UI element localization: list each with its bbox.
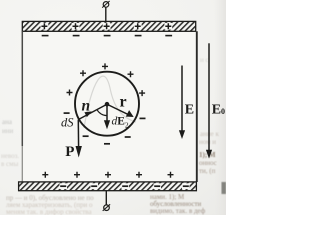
faint bleed curve inside circle (decorative) [84,76,136,128]
E0 vector [208,43,210,151]
svg-text:меням так. в дифор свойства: меням так. в дифор свойства [6,208,92,215]
dielectric right boundary [196,31,198,182]
bound charges - (below top plate) [42,35,172,37]
svg-text:ном и: ном и [199,138,216,146]
n arrowhead [84,111,91,117]
svg-text:r: r [120,93,127,110]
E vector [181,66,183,132]
center dot [105,102,110,107]
faint bleed-through text (decorative) [1,56,219,216]
top capacitor plate [22,21,195,31]
svg-text:E: E [185,102,194,117]
svg-text:ти, (п: ти, (п [199,167,216,175]
P vector [77,120,79,148]
radius line from dS to center [78,104,107,119]
angle arc [97,110,107,116]
bottom terminal [103,204,110,211]
svg-text:в смы: в смы [1,160,19,168]
paper background [0,0,226,215]
dE2 vector [106,104,108,122]
top terminal [102,1,109,8]
plate free charges + (top) [41,23,171,29]
r vector [107,104,131,116]
svg-text:n: n [82,98,91,115]
svg-text:невоз.: невоз. [1,152,19,160]
- charges around cavity bottom [64,113,146,144]
svg-text:ини: ини [2,127,13,135]
bound charges + (above bottom plate) [42,172,173,178]
bottom capacitor plate [19,182,197,191]
svg-text:P: P [65,144,74,160]
svg-text:dS: dS [61,116,74,130]
svg-text:видимо, так. в деф: видимо, так. в деф [150,207,206,215]
+ charges around cavity top [67,63,146,96]
dielectric left boundary [21,31,23,146]
svg-text:и с: и с [200,56,209,64]
wire bottom [105,191,107,205]
spherical cavity circle [75,72,139,136]
wire top [105,7,107,21]
svg-text:оннос: оннос [199,159,217,167]
plate free charges - (bottom plate) [60,185,189,187]
svg-text:ана: ана [2,118,13,126]
